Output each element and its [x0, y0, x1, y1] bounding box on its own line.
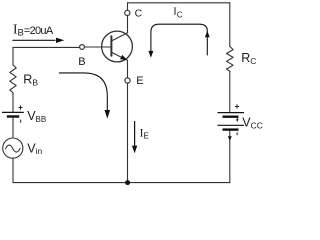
wire left vertical (base corner to RB)	[12, 47, 14, 64]
wire node C to top wire	[127, 3, 129, 11]
wire Vin to bottom wire	[12, 158, 14, 182]
svg-text:C: C	[135, 8, 143, 20]
Vin sine wave	[6, 145, 20, 152]
battery VBB plates	[2, 112, 24, 116]
transistor Q1 circle	[102, 31, 133, 62]
IC curved arrow	[148, 24, 209, 58]
wire right upper (top corner down to RC)	[229, 3, 231, 47]
battery VBB minus tick	[20, 120, 22, 123]
junction dot	[125, 180, 130, 185]
base region curved arrow	[59, 73, 110, 119]
wire collector up to node C	[127, 16, 129, 33]
wire VCC battery to bottom wire	[229, 130, 231, 182]
wire emitter down to node E	[127, 60, 129, 78]
svg-text:B: B	[78, 56, 85, 68]
resistor RC	[227, 46, 234, 71]
battery VCC plus sign	[235, 104, 239, 108]
wire base horizontal left (corner to node B)	[13, 46, 80, 48]
transistor collector diagonal	[111, 33, 127, 41]
battery VCC mid cell arrow	[236, 117, 239, 122]
IB current arrow	[12, 38, 64, 43]
wire node E down to junction	[127, 83, 129, 183]
wire top (collector corner to top-right corner)	[128, 2, 230, 4]
IE current arrow	[132, 121, 137, 153]
node E circle	[125, 78, 130, 83]
node B circle	[80, 45, 85, 50]
wire VBB battery to Vin source	[12, 118, 14, 138]
wire RC to VCC battery	[229, 71, 231, 112]
node C circle	[125, 10, 130, 15]
wire RB to VBB battery	[12, 93, 14, 112]
battery VCC lower tick	[236, 132, 238, 135]
resistor RB	[10, 65, 16, 93]
battery VCC plates	[218, 113, 245, 130]
transistor base bar	[110, 36, 112, 56]
transistor emitter diagonal	[111, 52, 127, 60]
transistor emitter arrowhead	[120, 55, 127, 60]
small current arrowhead on wire below VCC	[228, 136, 232, 141]
bottom wire	[13, 182, 230, 184]
svg-text:E: E	[136, 75, 143, 87]
AC source Vin circle	[3, 138, 23, 158]
wire node B to transistor base	[84, 46, 111, 48]
battery VBB plus sign	[18, 106, 22, 110]
